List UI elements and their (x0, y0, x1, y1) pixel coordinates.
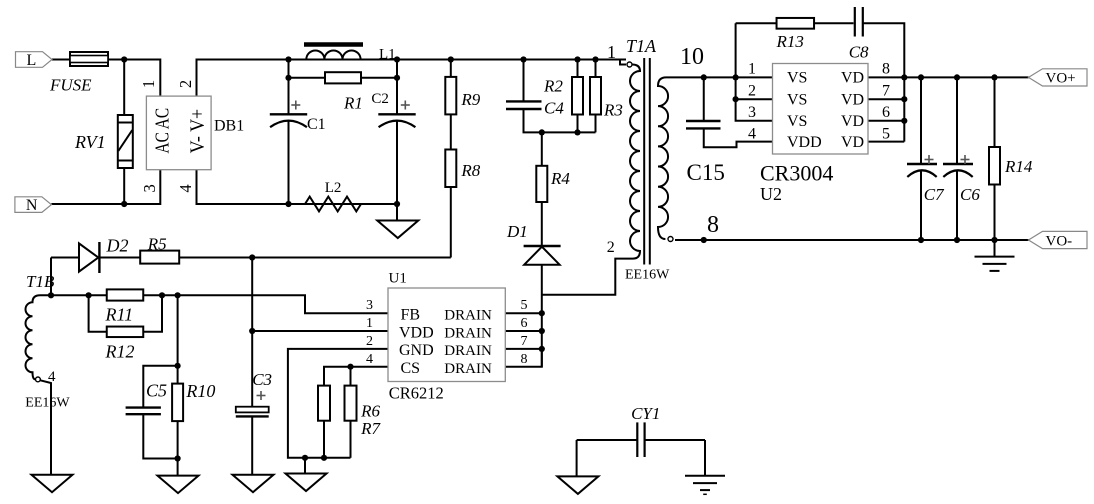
svg-text:U1: U1 (389, 271, 407, 287)
svg-text:DRAIN: DRAIN (444, 361, 492, 377)
svg-text:C2: C2 (371, 91, 389, 107)
svg-text:VS: VS (787, 91, 807, 108)
svg-text:7: 7 (521, 334, 528, 349)
svg-text:T1A: T1A (626, 36, 657, 56)
svg-text:C5: C5 (146, 380, 167, 400)
svg-text:VO-: VO- (1046, 233, 1073, 249)
svg-text:R5: R5 (147, 235, 167, 254)
svg-text:R9: R9 (460, 90, 480, 109)
svg-text:U2: U2 (760, 184, 782, 204)
svg-text:2: 2 (366, 334, 373, 349)
svg-text:VD: VD (841, 91, 864, 108)
svg-text:VD: VD (841, 70, 864, 87)
svg-text:DB1: DB1 (214, 118, 244, 135)
svg-text:C15: C15 (687, 160, 725, 185)
svg-text:RV1: RV1 (74, 132, 106, 152)
svg-text:CR3004: CR3004 (760, 161, 833, 186)
svg-text:2: 2 (748, 83, 756, 100)
svg-text:DRAIN: DRAIN (444, 343, 492, 359)
svg-text:1: 1 (366, 316, 373, 331)
svg-text:4: 4 (176, 184, 195, 192)
svg-text:4: 4 (366, 352, 373, 367)
svg-text:L2: L2 (325, 180, 342, 196)
svg-text:N: N (26, 197, 38, 214)
svg-text:VO+: VO+ (1046, 71, 1076, 87)
svg-text:10: 10 (680, 44, 704, 70)
svg-text:5: 5 (521, 298, 528, 313)
svg-text:R2: R2 (543, 77, 563, 96)
svg-text:R1: R1 (343, 94, 363, 113)
svg-text:7: 7 (882, 83, 890, 100)
svg-text:GND: GND (399, 342, 434, 359)
svg-text:CS: CS (401, 360, 421, 377)
svg-text:4: 4 (748, 126, 756, 143)
svg-text:CY1: CY1 (631, 404, 660, 423)
svg-text:6: 6 (882, 104, 890, 121)
svg-text:R11: R11 (105, 304, 134, 324)
svg-text:2: 2 (176, 80, 195, 88)
svg-text:VD: VD (841, 134, 864, 151)
svg-text:R12: R12 (105, 341, 135, 361)
svg-text:1: 1 (607, 42, 616, 62)
svg-text:3: 3 (366, 298, 373, 313)
svg-text:FUSE: FUSE (49, 76, 92, 95)
svg-text:3: 3 (140, 184, 159, 192)
svg-text:EE16W: EE16W (25, 395, 70, 410)
svg-text:DRAIN: DRAIN (444, 325, 492, 341)
svg-text:R13: R13 (776, 32, 804, 51)
svg-text:VDD: VDD (787, 134, 822, 151)
svg-text:1: 1 (139, 80, 158, 88)
svg-text:C4: C4 (544, 99, 564, 118)
svg-text:4: 4 (48, 369, 56, 385)
svg-text:D1: D1 (506, 222, 528, 241)
svg-text:C7: C7 (924, 185, 945, 204)
svg-text:C8: C8 (849, 43, 869, 62)
svg-text:C1: C1 (307, 116, 326, 133)
svg-text:8: 8 (882, 61, 890, 78)
svg-text:5: 5 (882, 126, 890, 143)
svg-text:VS: VS (787, 113, 807, 130)
svg-text:C3: C3 (252, 370, 272, 389)
svg-text:V- V+: V- V+ (187, 109, 208, 154)
svg-text:T1B: T1B (26, 272, 55, 291)
svg-text:8: 8 (521, 352, 528, 367)
svg-text:3: 3 (748, 104, 756, 121)
svg-text:VS: VS (787, 70, 807, 87)
svg-text:R4: R4 (550, 169, 570, 188)
svg-text:VDD: VDD (399, 324, 434, 341)
svg-text:L1: L1 (379, 47, 396, 63)
svg-text:R6: R6 (360, 402, 380, 421)
svg-text:R14: R14 (1004, 157, 1033, 176)
svg-text:C6: C6 (960, 185, 980, 204)
svg-text:L: L (27, 52, 37, 69)
svg-text:R7: R7 (360, 419, 381, 438)
svg-text:8: 8 (707, 212, 719, 238)
svg-text:1: 1 (748, 61, 756, 78)
svg-text:VD: VD (841, 113, 864, 130)
svg-text:R10: R10 (185, 381, 215, 401)
svg-text:EE16W: EE16W (625, 268, 670, 283)
svg-text:2: 2 (607, 239, 615, 256)
svg-text:DRAIN: DRAIN (444, 308, 492, 324)
svg-text:CR6212: CR6212 (389, 384, 444, 403)
svg-text:D2: D2 (106, 236, 129, 256)
svg-text:R8: R8 (460, 161, 480, 180)
svg-text:FB: FB (401, 307, 421, 324)
svg-text:AC AC: AC AC (152, 108, 174, 154)
svg-text:6: 6 (521, 316, 528, 331)
svg-text:R3: R3 (603, 101, 623, 120)
